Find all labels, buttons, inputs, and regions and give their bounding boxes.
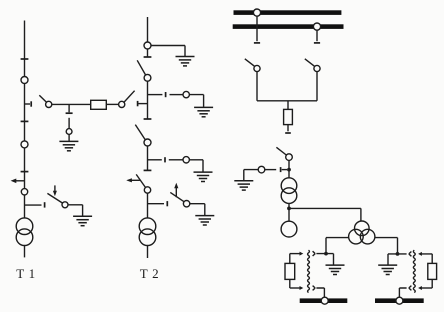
- reactor rectangle in row1: [91, 100, 107, 109]
- wire left drop to header: [256, 72, 258, 101]
- open contact tick T2 feeder bottom: [144, 169, 152, 171]
- circuit breaker circle on T2 feeder (top): [144, 42, 151, 49]
- node circle bottom left busbar: [321, 297, 328, 304]
- tick under resistor: [285, 132, 291, 134]
- busbar bottom right: [375, 298, 424, 303]
- tick under busbar drop 1: [254, 42, 260, 44]
- wire left subcircuit to ground: [326, 254, 334, 265]
- wire T2 feeder middle: [147, 81, 149, 119]
- earthing tap tick: [66, 112, 73, 114]
- node circle on busbar 1: [253, 9, 260, 16]
- node circle bottom right busbar: [396, 297, 403, 304]
- wire row1 stub from T1 feeder: [25, 103, 31, 105]
- busbar 1: [234, 10, 342, 15]
- wire row C to ground: [190, 204, 205, 215]
- disconnector circle row1 right: [119, 101, 125, 107]
- disconnector circle left bus: [254, 65, 260, 71]
- earthing tap circle: [66, 129, 72, 135]
- disconnector blade row1 left: [39, 95, 46, 102]
- three winding transformer: [355, 221, 370, 236]
- junction dot: [287, 168, 291, 172]
- circle row B: [183, 157, 189, 163]
- open contact tick on T2 feeder: [144, 56, 152, 58]
- wire right subcircuit top right arrow: [422, 254, 433, 264]
- ground top of T2 feeder: [176, 57, 195, 66]
- wire T2 feeder to transformer: [147, 193, 149, 218]
- wire under resistor: [287, 125, 289, 132]
- resistor rectangle: [284, 109, 293, 124]
- wire row B mid: [169, 159, 183, 161]
- circle row A: [183, 91, 189, 97]
- earthing switch circle row C: [183, 201, 189, 207]
- tick row A: [165, 92, 167, 97]
- ground under row1 tap: [59, 141, 78, 150]
- disconnector circle on T2 feeder (upper): [144, 74, 151, 81]
- circle left tap: [258, 166, 265, 173]
- resistor loop left subcircuit: [289, 254, 291, 264]
- tick under busbar drop 2: [314, 42, 320, 44]
- wire left subcircuit bottom right chevron: [313, 286, 325, 298]
- busbar 2: [233, 24, 344, 29]
- circuit breaker circle on T1 feeder (middle): [21, 141, 28, 148]
- ground T1 earthing row: [73, 216, 92, 225]
- wire feeder T1 main line: [24, 21, 26, 219]
- ground left tap: [234, 181, 253, 190]
- wire left subcircuit top left arrow: [290, 253, 300, 255]
- wire right subcircuit to ground: [388, 254, 398, 265]
- wire feeder T2 main line upper: [147, 17, 149, 57]
- wire left tap: [282, 169, 287, 171]
- wire left tap mid: [265, 169, 276, 171]
- wire left subcircuit top right chevron: [313, 251, 325, 256]
- wire right subcircuit bottom left chevron: [399, 286, 411, 298]
- earthing switch blade row C: [170, 192, 184, 201]
- wire right drop to header: [316, 72, 318, 101]
- wire right subcircuit bottom right arrow: [422, 287, 433, 289]
- disconnector circle row1 left: [46, 101, 52, 107]
- disconnector contact tick on T1 feeder: [21, 58, 29, 60]
- svg-text:T 1: T 1: [16, 266, 35, 281]
- disconnector blade row1 right: [124, 91, 134, 102]
- wire left subcircuit bottom left arrow: [290, 287, 300, 289]
- disconnector circle above transformer: [286, 154, 293, 161]
- wire earthing row at T1 feeder bottom: [25, 204, 42, 206]
- wire drop from busbar 2: [316, 30, 318, 41]
- wire drop from busbar 1: [256, 16, 258, 41]
- wire left tap to ground: [244, 170, 258, 181]
- wire row1 right: [106, 103, 118, 105]
- wire row A mid: [170, 94, 184, 96]
- wire header joining drops: [257, 100, 317, 102]
- ground row B: [194, 172, 213, 181]
- wire row1 into T2 feeder: [138, 103, 147, 105]
- tick T1 earthing row: [44, 202, 46, 207]
- disconnector circle right bus: [314, 65, 320, 71]
- svg-text:T 2: T 2: [140, 266, 159, 281]
- ground row A: [194, 107, 213, 116]
- tick row C: [166, 201, 168, 206]
- junction dot left subcircuit: [324, 252, 328, 256]
- transformer T2: [139, 218, 156, 235]
- earthing switch arrow up row C: [175, 188, 177, 198]
- disconnector fixed contact tick row1 right: [137, 101, 139, 106]
- ground left subcircuit: [326, 265, 345, 274]
- winding wavy line right subcircuit: [413, 250, 415, 292]
- earthing switch arrow down T1 row: [54, 185, 56, 191]
- wire branch to three winding transformer: [289, 208, 361, 221]
- disconnector blade T2 feeder mid: [135, 125, 145, 140]
- wire to junction: [288, 160, 290, 177]
- transformer T1: [16, 218, 33, 235]
- wire right subcircuit top left chevron: [398, 252, 412, 257]
- disconnector blade on T2 feeder (upper): [137, 60, 145, 75]
- wire T1 earthing row to ground: [68, 205, 83, 216]
- wire stub to resistor: [287, 101, 289, 110]
- generator circle: [281, 221, 297, 237]
- ground right subcircuit: [378, 265, 397, 274]
- disconnector blade left bus: [245, 59, 255, 67]
- disconnector blade with arrow on T2 feeder: [136, 174, 145, 187]
- wire under transformer: [288, 203, 290, 221]
- arrow pointing left on T1 feeder: [16, 180, 25, 182]
- wire left branch of three winding transformer: [326, 238, 349, 254]
- wire earthing row B: [148, 159, 162, 161]
- disconnector blade right bus: [305, 59, 315, 67]
- circuit breaker circle T2 feeder mid: [144, 139, 151, 146]
- disconnector contact tick on T1 feeder (third): [21, 171, 29, 173]
- wire earthing row A: [148, 94, 163, 96]
- open contact tick T2 feeder mid: [144, 118, 152, 120]
- earthing tap wire: [68, 118, 70, 129]
- ground row C: [195, 216, 214, 225]
- junction dot under transformer: [287, 207, 291, 211]
- busbar bottom left: [300, 298, 348, 303]
- disconnector blade above transformer: [276, 147, 286, 155]
- wire row1 middle: [52, 103, 91, 105]
- tick row B: [164, 157, 166, 162]
- node circle on busbar 2: [313, 23, 320, 30]
- wire row B to ground: [189, 160, 203, 172]
- wire right branch of three winding transformer: [375, 238, 398, 254]
- wire row A to ground: [189, 95, 203, 107]
- wire branch to ground from top breaker: [151, 46, 185, 57]
- winding wavy line left subcircuit: [308, 250, 310, 292]
- earthing tap stub on row1: [68, 104, 70, 112]
- disconnector fixed contact tick row1 left: [30, 101, 32, 106]
- circuit breaker circle on T1 feeder (upper): [21, 77, 28, 84]
- wire earthing row C: [148, 203, 165, 205]
- earthing switch blade T1 row: [47, 193, 62, 203]
- resistor loop right subcircuit: [428, 263, 437, 279]
- step-up transformer two winding: [281, 178, 297, 194]
- tick left tap: [280, 167, 282, 172]
- disconnector contact tick on T1 feeder (second): [21, 120, 29, 122]
- wire T2 feeder lower: [147, 146, 149, 170]
- disconnector circle on T1 feeder (lower): [21, 189, 27, 195]
- disconnector circle on T2 feeder (bottom): [144, 187, 150, 193]
- junction dot right subcircuit: [396, 252, 400, 256]
- earthing tap lead: [68, 134, 70, 141]
- earthing switch circle T1 row: [62, 202, 68, 208]
